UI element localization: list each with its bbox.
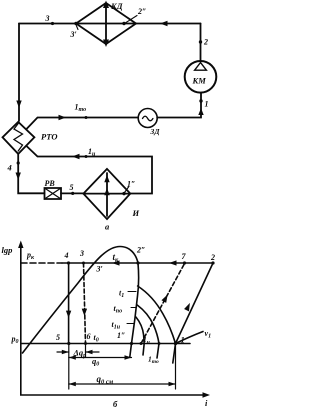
svg-text:6: 6	[87, 332, 91, 341]
svg-text:1: 1	[181, 335, 185, 345]
svg-text:t0: t0	[94, 333, 99, 344]
svg-text:ЗД: ЗД	[150, 127, 161, 136]
svg-text:v1: v1	[205, 329, 212, 340]
svg-text:И: И	[132, 208, 140, 218]
svg-text:3′: 3′	[70, 30, 77, 39]
svg-text:1то: 1то	[75, 103, 87, 114]
svg-text:РВ: РВ	[45, 179, 56, 188]
svg-text:1и: 1и	[143, 335, 150, 346]
svg-text:а: а	[105, 222, 110, 232]
svg-text:tпо: tпо	[114, 304, 123, 315]
svg-text:5: 5	[56, 333, 60, 342]
svg-text:2″: 2″	[136, 246, 145, 255]
svg-text:РТО: РТО	[41, 132, 58, 142]
svg-text:4: 4	[64, 251, 69, 260]
svg-text:3: 3	[45, 14, 50, 23]
svg-text:tк: tк	[113, 252, 120, 264]
svg-text:КМ: КМ	[192, 76, 207, 86]
svg-text:pк: pк	[26, 251, 35, 262]
svg-text:lgp: lgp	[2, 245, 13, 255]
svg-text:1″: 1″	[117, 331, 125, 340]
svg-text:4: 4	[7, 163, 12, 173]
svg-text:1: 1	[205, 100, 209, 109]
svg-text:1и: 1и	[88, 147, 96, 158]
svg-text:б: б	[113, 399, 118, 409]
svg-text:2: 2	[210, 253, 215, 262]
svg-text:t1и: t1и	[112, 320, 121, 331]
svg-text:i: i	[205, 398, 208, 408]
svg-text:3: 3	[79, 249, 84, 258]
svg-text:7: 7	[182, 252, 187, 261]
svg-text:2: 2	[203, 38, 208, 47]
svg-text:КД: КД	[110, 1, 124, 11]
svg-text:q0 см: q0 см	[97, 374, 114, 386]
svg-text:Δqр: Δqр	[73, 348, 87, 360]
svg-text:3′: 3′	[96, 265, 103, 274]
svg-text:5: 5	[70, 183, 74, 192]
svg-text:2″: 2″	[137, 7, 146, 16]
svg-text:t1: t1	[119, 289, 124, 300]
svg-text:p0: p0	[11, 335, 19, 346]
svg-text:1″: 1″	[127, 180, 135, 189]
